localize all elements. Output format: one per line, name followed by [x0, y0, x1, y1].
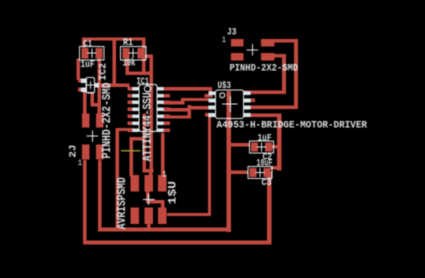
svg-text:10uF: 10uF [257, 158, 273, 169]
svg-text:1: 1 [78, 159, 83, 168]
wire R1 right jog [144, 55, 153, 58]
wire J3 bottom-right vertical [282, 54, 286, 94]
wire J3 bottom-right pad horizontal [275, 54, 286, 58]
svg-text:IC2: IC2 [98, 63, 109, 81]
wire IC1 pin14 to U3 pin1 vertical [209, 87, 212, 98]
IC1 ATtiny44 pin pads tinned left [133, 87, 140, 132]
svg-text:C1: C1 [83, 39, 92, 50]
U$3 yellow airwire [228, 94, 229, 99]
regulator IC2 origin cross [87, 81, 95, 89]
wire AVRISP bottom-middle stub [147, 224, 151, 231]
wire jog to U3 pin2 [181, 98, 185, 105]
capacitor C1 [80, 47, 105, 61]
IC1 ATtiny44 pin pads red tips right [164, 87, 171, 132]
connector J3 origin cross [247, 44, 258, 55]
svg-text:C3: C3 [262, 178, 272, 189]
wire J2 bottom-right pad down [98, 160, 102, 231]
wire IC2 bottom-left pad to J2 [83, 91, 87, 114]
IC1 ATtiny44 pin pads tinned right [157, 87, 164, 132]
wire below IC2 vertical [91, 93, 95, 107]
wire IC1 pin14 to U3 pin1 horizontal [163, 87, 212, 90]
wire IC1 pin7 left stub [116, 128, 133, 131]
U$3 origin cross [222, 96, 238, 112]
wire AVRISP bottom-right link vertical [146, 192, 150, 204]
wire IC1 pin7 down to gnd rail [116, 128, 120, 229]
yellow airwire near AVRISP [121, 150, 141, 151]
wire U3 pin4 to AVRISP vertical [208, 113, 211, 216]
wire U3 pin8 horizontal [244, 90, 286, 94]
wire into AVRISP top-left pad [130, 137, 134, 176]
wire U3 pin5 down vertical [277, 113, 281, 170]
connector J2 pads [82, 114, 104, 160]
svg-text:R1: R1 [123, 38, 133, 49]
svg-text:1uF: 1uF [81, 60, 95, 71]
wire C1 right pad to J2 [98, 59, 102, 114]
wire IC1 to AVRISP top-right pad [161, 133, 165, 177]
wire R1 right pad down [142, 59, 146, 76]
svg-text:1: 1 [222, 36, 227, 45]
regulator IC2 pads [78, 78, 99, 91]
wire U3 pin5 horizontal [251, 113, 282, 117]
connector U$1 AVRISP pads [131, 175, 167, 224]
svg-text:PINHD-2X2-SMD: PINHD-2X2-SMD [101, 82, 114, 158]
wire AVRISP bottom-right link horizontal [146, 200, 165, 204]
wire AVRISP top-left feed horizontal [130, 137, 146, 140]
connector J2 origin cross [87, 131, 98, 142]
wire to U3 pin2 horizontal [181, 98, 209, 101]
wire AVRISP right horizontal [167, 213, 211, 216]
wire to C2 left pad [231, 143, 251, 147]
wire C1 left pad to IC2 [77, 59, 81, 81]
wire into AVRISP top-middle pad [149, 169, 153, 178]
wire into U3 pin1 [205, 94, 213, 97]
svg-text:PINHD-2X2-SMD: PINHD-2X2-SMD [230, 63, 299, 74]
U$3 A4953 pin pads tinned left [209, 91, 216, 117]
svg-text:U$3: U$3 [218, 80, 232, 92]
wire IC1 pin12 horizontal [163, 101, 185, 104]
U$3 A4953 pin pads tinned right [244, 91, 251, 117]
wire to U3 pin3 horizontal [188, 106, 209, 109]
svg-text:1: 1 [162, 171, 167, 180]
wire C2 right pad stub [272, 145, 281, 149]
wire below IC2 jog [91, 103, 100, 107]
svg-text:J3: J3 [227, 27, 237, 38]
IC1 ATtiny44 pin pads red tips left [128, 87, 134, 132]
svg-text:ATTINY44-SSU: ATTINY44-SSU [141, 92, 154, 161]
wire to C3 left pad [231, 170, 249, 174]
wire rail drop to C1 left pad [82, 40, 86, 48]
wire under IC1 vertical long [150, 55, 153, 172]
wire gnd rail horizontal [98, 228, 231, 232]
connector J3 pads [231, 39, 275, 61]
wire rail mid drop [112, 40, 115, 84]
IC1 body outline ATTINY44 [139, 85, 157, 132]
regulator IC2 body outline [86, 78, 94, 93]
wire IC1 pin11 horizontal [163, 108, 188, 111]
svg-text:AVRISPSMD: AVRISPSMD [116, 177, 129, 229]
svg-text:1uF: 1uF [258, 133, 272, 144]
wire jog vertical to U3 pin3 [188, 105, 192, 119]
connector U$1 origin cross [143, 194, 154, 205]
capacitor C3 [248, 167, 272, 179]
wire J2 bottom-left pad down [83, 160, 87, 244]
wire R1 left pad down [125, 59, 128, 76]
wire into AVRISP bottom-right pad [161, 200, 165, 209]
wire J3 top-right vertical [294, 39, 298, 109]
wire C3 right pad down [267, 172, 271, 245]
resistor R1 [121, 47, 147, 61]
svg-text:A4953-H-BRIDGE-MOTOR-DRIVER: A4953-H-BRIDGE-MOTOR-DRIVER [217, 120, 368, 131]
wire U3 pin6 horizontal [251, 106, 298, 110]
wire IC2 right pad trace [98, 83, 129, 87]
wire IC1 pin10 horizontal [163, 115, 188, 118]
wire U3 pin7 stub [251, 99, 256, 102]
wire under R1 horizontal [125, 72, 152, 76]
wire J3 top-right pad horizontal [275, 39, 298, 43]
wire AVRISP mid jog [143, 169, 154, 173]
wire C3 right pad stub [270, 166, 281, 169]
wire vertical under U3 to gnd rail [227, 91, 231, 232]
wire rail drop to R1 right pad [142, 40, 146, 48]
wire U3 pin4 stub [205, 113, 216, 116]
wire top rail VCC [82, 37, 146, 40]
svg-text:10k: 10k [123, 57, 136, 69]
U$3 pin1 marker circle [220, 93, 225, 98]
wire bottom rail horizontal [83, 240, 271, 244]
svg-text:IC1: IC1 [137, 77, 150, 88]
IC1 pin1 marker circle [144, 86, 150, 92]
capacitor C2 [250, 141, 274, 153]
U$3 body outline A4953 [216, 90, 244, 119]
svg-text:1$U: 1$U [167, 181, 179, 205]
svg-text:2J: 2J [68, 145, 79, 158]
wire under IC1 to AVRISP mid vertical [143, 114, 147, 173]
